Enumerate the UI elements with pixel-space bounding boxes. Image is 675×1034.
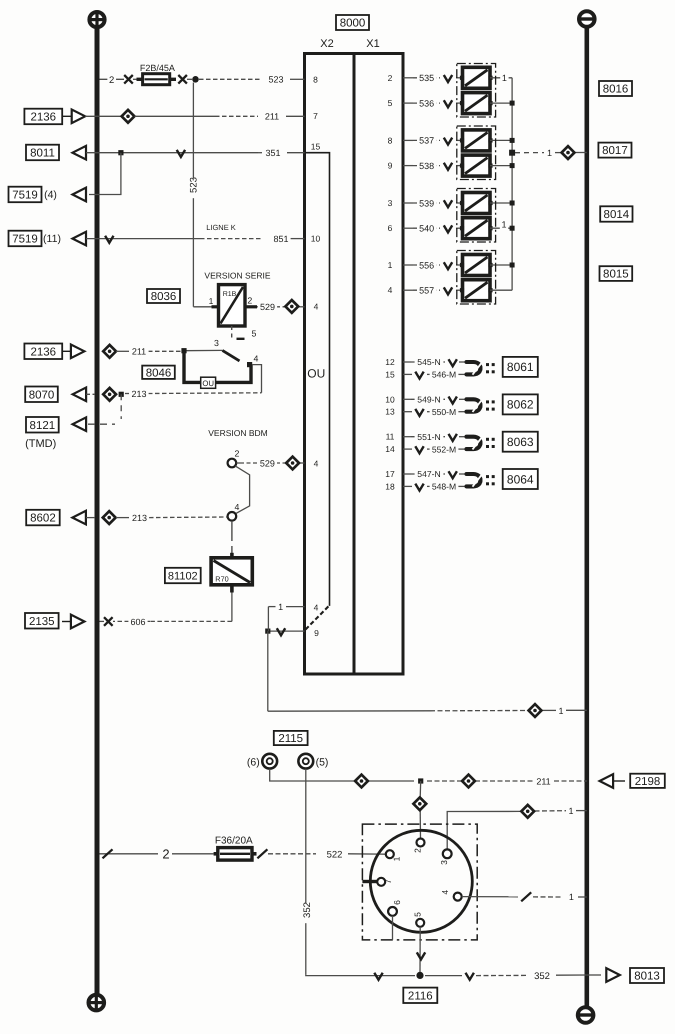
junction node on collector bbox=[510, 263, 515, 268]
wire label 1 (8017 row) bbox=[545, 147, 553, 158]
ground terminal symbol top-right bbox=[579, 11, 595, 27]
svg-text:549-N: 549-N bbox=[417, 395, 440, 405]
svg-text:551-N: 551-N bbox=[417, 432, 440, 442]
junction node on collector bbox=[510, 138, 515, 143]
warning lamp 557 bbox=[463, 280, 491, 301]
wire from 523 into relay pin 1 bbox=[193, 306, 212, 308]
connector 2116 body circle bbox=[370, 830, 472, 932]
connector half-shell 8063 top hook bbox=[467, 437, 481, 445]
wire 537 lamp to collector bbox=[490, 139, 512, 141]
label box 8011 bbox=[26, 145, 59, 161]
switch 8046 contact 4 node bbox=[247, 362, 252, 367]
splice X mark left of fuse F2B bbox=[124, 75, 133, 84]
junction node collector to ground branch bbox=[509, 150, 515, 156]
svg-text:522: 522 bbox=[327, 849, 343, 860]
battery terminal symbol top-left bbox=[89, 12, 104, 27]
wire 557 lamp to collector bbox=[490, 289, 512, 291]
splice diamond on wire 529 (bdm) bbox=[286, 457, 299, 470]
arrow V on wire 540 bbox=[444, 225, 452, 232]
warning lamp 556 bbox=[463, 255, 491, 276]
svg-text:F2B/45A: F2B/45A bbox=[140, 63, 175, 73]
svg-text:539: 539 bbox=[419, 198, 434, 208]
svg-text:4: 4 bbox=[388, 285, 393, 295]
2116 pin 3 bbox=[443, 849, 452, 858]
switch 8046 moving arm bbox=[222, 350, 239, 361]
wire 529 (bdm) to X2 pin 4 bbox=[236, 462, 240, 464]
svg-text:3: 3 bbox=[439, 860, 449, 865]
label box 8013 bbox=[630, 968, 664, 983]
svg-text:2136: 2136 bbox=[31, 346, 57, 358]
svg-text:11: 11 bbox=[386, 432, 395, 442]
wire 2 from + rail to fuse F2B bbox=[100, 78, 125, 80]
splice diamond (8017 row) bbox=[562, 146, 575, 159]
svg-text:545-N: 545-N bbox=[417, 357, 440, 367]
junction node below X2 pin 9 bbox=[265, 629, 270, 634]
wire 552-M from X1 bbox=[403, 448, 412, 450]
svg-text:1: 1 bbox=[278, 602, 283, 612]
wire 546-M from X1 bbox=[403, 373, 412, 375]
connector half-shell 8064 bottom hook bbox=[467, 479, 481, 487]
dashed TMD vertical link to wire 213 bbox=[120, 394, 122, 419]
arrow from 2135 into rail bbox=[62, 621, 71, 623]
wire from X2 pin 9 (bottom) bbox=[268, 630, 305, 632]
svg-text:352: 352 bbox=[302, 902, 313, 918]
junction node 2116 pin 5 to wire 352 bbox=[416, 972, 423, 979]
wire label 529 (bdm) bbox=[258, 458, 277, 469]
splice diamond on wire 529 (serie) bbox=[285, 300, 298, 313]
fuse F36/20A bbox=[214, 852, 218, 856]
svg-text:10: 10 bbox=[385, 394, 395, 404]
wire 557 from X1 pin 4 bbox=[403, 289, 413, 291]
svg-text:9: 9 bbox=[314, 628, 319, 638]
label box 2136 (top) bbox=[24, 109, 62, 125]
svg-text:10: 10 bbox=[311, 234, 321, 244]
svg-text:81102: 81102 bbox=[168, 570, 198, 582]
inner variant box inside X2 bbox=[306, 153, 330, 606]
wire 523 to X2 pin 8 bbox=[199, 78, 262, 80]
wire 540 lamp to collector bbox=[490, 227, 512, 229]
svg-text:1: 1 bbox=[569, 892, 574, 902]
svg-text:13: 13 bbox=[385, 407, 395, 417]
label box 2136 (second) bbox=[24, 344, 62, 360]
svg-text:547-N: 547-N bbox=[417, 469, 440, 479]
svg-text:351: 351 bbox=[265, 148, 280, 158]
wire 545-N from X1 bbox=[403, 361, 411, 363]
arrow V on wire 545-N bbox=[449, 359, 457, 366]
svg-text:8011: 8011 bbox=[30, 148, 55, 160]
arrow to 7519(11) bbox=[73, 232, 87, 246]
svg-text:851: 851 bbox=[273, 234, 288, 244]
wire 536 from X1 pin 5 bbox=[403, 102, 413, 104]
junction node wire 211 / branch to 2116 pin 2 bbox=[418, 778, 423, 783]
svg-text:4: 4 bbox=[254, 354, 259, 364]
wire label 538 bbox=[417, 160, 436, 171]
svg-text:8062: 8062 bbox=[507, 398, 534, 412]
svg-text:6: 6 bbox=[388, 223, 393, 233]
wire label 535 bbox=[417, 72, 436, 83]
arrow V on wire 535 bbox=[444, 75, 452, 82]
svg-text:OU: OU bbox=[202, 379, 214, 388]
relay R70 (81102) bbox=[211, 558, 252, 585]
wire 538 lamp to collector bbox=[490, 165, 512, 167]
ring terminal (6) bbox=[262, 754, 277, 769]
stub from arrow 8070 to rail bbox=[86, 393, 95, 395]
svg-text:2135: 2135 bbox=[29, 616, 55, 628]
splice diamond on branch to pin 2 bbox=[413, 797, 426, 810]
wire 538 from X1 pin 9 bbox=[403, 165, 413, 167]
svg-text:2: 2 bbox=[109, 75, 114, 86]
svg-text:538: 538 bbox=[419, 161, 434, 171]
label box 2115 bbox=[274, 731, 308, 745]
wire label 536 bbox=[417, 98, 436, 109]
svg-text:4: 4 bbox=[314, 603, 319, 613]
ring terminal (5) bbox=[298, 754, 313, 769]
wire 535 from X1 pin 2 bbox=[403, 77, 413, 79]
wire 211 from (6) to 2198 bbox=[270, 769, 296, 781]
switch BDM moving arm bbox=[235, 466, 249, 514]
svg-text:8017: 8017 bbox=[602, 145, 628, 157]
wire 211 to switch 8046 pivot bbox=[116, 350, 129, 352]
wire label 2 (bottom) bbox=[161, 846, 172, 861]
svg-text:1: 1 bbox=[392, 856, 402, 861]
wire 351 to X2 pin 15 bbox=[86, 152, 258, 154]
svg-text:VERSION BDM: VERSION BDM bbox=[208, 428, 268, 438]
wire label 551-N bbox=[415, 432, 444, 443]
relay R1B (8036) bbox=[219, 285, 246, 326]
svg-text:606: 606 bbox=[130, 617, 145, 627]
svg-text:529: 529 bbox=[260, 458, 275, 468]
wire label 556 bbox=[417, 260, 436, 271]
arrow V on wire 547-N bbox=[449, 471, 457, 478]
arrow to 7519(4) bbox=[73, 188, 87, 202]
label box 8062 bbox=[503, 394, 538, 414]
wire 549-N from X1 bbox=[403, 398, 411, 400]
svg-text:X2: X2 bbox=[320, 38, 333, 50]
svg-text:8070: 8070 bbox=[29, 389, 55, 401]
switch BDM contact 2 bbox=[228, 459, 237, 468]
fuse F2B/45A bbox=[137, 78, 143, 81]
wire from collector to ground rail (8017 row) bbox=[515, 152, 544, 154]
2116 pin 4 bbox=[454, 893, 462, 901]
wire from BDM contact 4 down to relay R70 bbox=[231, 521, 233, 541]
wire label 539 bbox=[417, 198, 436, 209]
warning lamp 537 bbox=[463, 130, 491, 151]
svg-text:(6): (6) bbox=[247, 756, 260, 768]
svg-text:213: 213 bbox=[131, 389, 146, 399]
branch wire down to 2116 pin 2 bbox=[419, 781, 422, 798]
svg-text:5: 5 bbox=[388, 98, 393, 108]
label box 8014 bbox=[600, 206, 632, 221]
switch BDM contact 4 bbox=[228, 512, 237, 521]
wire label 211 (second) bbox=[129, 346, 148, 357]
splice diamond on wire 1 bbox=[529, 704, 542, 717]
wire label 2 bbox=[107, 74, 116, 86]
svg-text:8602: 8602 bbox=[30, 513, 56, 525]
splice diamond on rail for wire 211 (second) bbox=[103, 345, 116, 358]
vertical wire down to row 1 bbox=[267, 631, 269, 711]
label 8000 bbox=[336, 15, 369, 30]
svg-text:523: 523 bbox=[188, 177, 199, 193]
svg-text:3: 3 bbox=[388, 198, 393, 208]
svg-text:2115: 2115 bbox=[278, 733, 303, 745]
warning lamp 539 bbox=[463, 193, 491, 214]
arrow V on wire 851 bbox=[105, 236, 113, 243]
svg-text:14: 14 bbox=[385, 444, 395, 454]
svg-text:7: 7 bbox=[313, 111, 318, 121]
svg-text:OU: OU bbox=[307, 367, 325, 381]
svg-text:1: 1 bbox=[558, 706, 563, 716]
svg-text:8016: 8016 bbox=[603, 84, 629, 96]
arrow V on wire 557 bbox=[444, 287, 452, 294]
arrow V on wire 551-N bbox=[449, 434, 457, 441]
svg-text:546-M: 546-M bbox=[432, 370, 456, 380]
svg-text:211: 211 bbox=[265, 112, 279, 122]
svg-text:R1B: R1B bbox=[223, 291, 237, 298]
wire label 552-M bbox=[430, 444, 459, 455]
wire label 522 bbox=[324, 848, 344, 860]
connector half-shell 8061 top hook bbox=[467, 362, 481, 370]
svg-text:213: 213 bbox=[132, 513, 147, 523]
ECU 8000 connector housing X2 bbox=[305, 54, 355, 675]
label box 8061 bbox=[503, 357, 538, 377]
arrow V on wire 550-M bbox=[415, 409, 423, 416]
svg-text:2198: 2198 bbox=[635, 776, 661, 788]
wire label 540 bbox=[417, 223, 436, 234]
svg-text:7519: 7519 bbox=[12, 234, 38, 246]
wire 352 bottom row to 8013 bbox=[306, 974, 368, 977]
svg-text:(TMD): (TMD) bbox=[25, 438, 56, 450]
wire label 529 (serie) bbox=[258, 301, 277, 312]
svg-text:17: 17 bbox=[385, 469, 395, 479]
arrow V on wire 351 bbox=[177, 150, 185, 157]
svg-text:4: 4 bbox=[314, 302, 319, 312]
label box 8602 bbox=[26, 510, 60, 526]
wire 352 from (5) down bbox=[305, 769, 307, 975]
wire label 213 bbox=[129, 388, 148, 399]
label box 8015 bbox=[600, 266, 633, 281]
svg-text:8: 8 bbox=[388, 135, 393, 145]
junction node to wire 523 bbox=[192, 76, 199, 83]
svg-text:6: 6 bbox=[392, 900, 402, 905]
2116 pin 6 bbox=[388, 907, 397, 916]
wire from 2116 pin 3 to ground rail bbox=[447, 811, 521, 849]
connector half-shell 8064 top hook bbox=[467, 474, 481, 482]
wire 536 lamp to collector bbox=[490, 102, 512, 104]
arrow V on pin 5 wire bbox=[417, 952, 425, 959]
arrow from 2136 (second) into rail bbox=[63, 350, 72, 352]
svg-text:1: 1 bbox=[209, 296, 214, 306]
warning lamp 536 bbox=[463, 93, 491, 114]
wire 529 (serie) to X2 pin 4 bbox=[257, 306, 260, 308]
vertical link pin4/pin9 wires bbox=[267, 607, 269, 632]
arrow V on wire 548-M bbox=[415, 484, 423, 491]
wire label 523 bbox=[266, 74, 285, 85]
arrow V on wire 352 (left) bbox=[374, 973, 382, 980]
wire 539 lamp to collector bbox=[490, 202, 512, 204]
label box 7519 (4) bbox=[9, 187, 42, 203]
OU alternative thick path bbox=[184, 351, 251, 383]
ground rail (right vertical bus) bbox=[584, 19, 589, 1015]
label box 2135 bbox=[25, 613, 59, 629]
svg-text:2: 2 bbox=[388, 73, 393, 83]
label box 8070 bbox=[25, 387, 58, 403]
wire 547-N from X1 bbox=[403, 473, 411, 475]
wire label 1 (pin4 bottom) bbox=[276, 601, 284, 612]
collector wire joining lamp outputs bbox=[511, 78, 513, 290]
ECU 8000 connector housing X1 bbox=[354, 54, 403, 675]
junction node on wire 351 bbox=[118, 150, 123, 155]
rotated label 523 bbox=[189, 178, 201, 198]
connector half-shell 8063 bottom hook bbox=[467, 442, 481, 450]
connector half-shell 8061 bottom hook bbox=[467, 367, 481, 375]
wire 540 from X1 pin 6 bbox=[403, 227, 413, 229]
wire label 1 (pin 3 row) bbox=[567, 805, 575, 816]
arrow from 2136 into rail bbox=[63, 115, 72, 117]
wire label 537 bbox=[417, 135, 436, 146]
splice diamond on wire 211 bbox=[122, 110, 135, 123]
wire 535 lamp to collector bbox=[490, 77, 512, 79]
wire 551-N from X1 bbox=[403, 436, 411, 438]
wire 606 from relay R70 to 2135 bbox=[231, 593, 233, 622]
svg-text:8063: 8063 bbox=[507, 435, 534, 449]
warning lamp 535 bbox=[463, 67, 491, 88]
switch 8046 contact 5 dash bbox=[237, 338, 245, 340]
junction node on collector bbox=[510, 163, 515, 168]
wire 2 from + rail to fuse F36 bbox=[100, 853, 159, 855]
splice diamond on wire 211 (left) bbox=[355, 775, 368, 788]
junction node on collector bbox=[510, 201, 515, 206]
ground terminal symbol bottom-right bbox=[578, 1007, 594, 1023]
slash mark on pin 4 wire bbox=[521, 892, 531, 901]
svg-text:X1: X1 bbox=[366, 38, 379, 50]
wire label 351 bbox=[263, 147, 282, 158]
wire label 550-M bbox=[430, 407, 459, 418]
svg-text:8015: 8015 bbox=[603, 269, 629, 281]
label box 81102 bbox=[165, 568, 201, 583]
dashed TMD wire bbox=[88, 423, 115, 425]
dash-dot box lamps 537/538 bbox=[457, 126, 496, 180]
dash-dot box lamps 535/536 bbox=[457, 64, 496, 118]
splice diamond on wire 211 (right) bbox=[462, 775, 475, 788]
wire label 1 (pin 4 row) bbox=[567, 891, 575, 902]
svg-text:523: 523 bbox=[268, 75, 283, 85]
svg-text:F36/20A: F36/20A bbox=[215, 836, 253, 847]
warning lamp 540 bbox=[463, 218, 491, 239]
svg-text:8: 8 bbox=[313, 75, 318, 85]
svg-text:5: 5 bbox=[252, 329, 257, 339]
svg-text:3: 3 bbox=[214, 338, 219, 348]
wire 213 to switch contact 4 bbox=[125, 393, 129, 395]
connector contact dots 8063 bbox=[486, 438, 489, 441]
slash mark near + rail bbox=[103, 849, 113, 858]
svg-text:15: 15 bbox=[311, 142, 321, 152]
junction node on collector bbox=[510, 226, 515, 231]
svg-text:1: 1 bbox=[388, 260, 393, 270]
relay R1B pin 1 stub bbox=[212, 305, 219, 308]
splice X mark right of fuse F2B bbox=[178, 75, 187, 84]
svg-text:7: 7 bbox=[383, 879, 393, 884]
2116 pin 5 bbox=[416, 919, 424, 927]
wire label 352 (bottom) bbox=[532, 970, 552, 982]
svg-text:4: 4 bbox=[440, 890, 450, 895]
wire label 213 (8602) bbox=[130, 512, 149, 523]
svg-text:8014: 8014 bbox=[604, 209, 630, 221]
wire label 545-N bbox=[415, 357, 444, 368]
relay R1B coil dashed link to switch 3 bbox=[231, 326, 233, 341]
junction node wire 211 / OU branch bbox=[181, 348, 186, 353]
wire label 1 (ground row) bbox=[557, 705, 565, 716]
wire label 1 (row 535) bbox=[500, 72, 508, 83]
svg-text:(5): (5) bbox=[316, 756, 329, 768]
wire 851 LIGNE K to X2 pin 10 bbox=[86, 238, 200, 240]
svg-text:R70: R70 bbox=[215, 575, 228, 584]
label box 8063 bbox=[503, 432, 538, 452]
wire 556 from X1 pin 1 bbox=[403, 264, 413, 266]
relay R70 bottom pin stub bbox=[230, 585, 234, 593]
svg-text:9: 9 bbox=[388, 161, 393, 171]
svg-text:1: 1 bbox=[547, 148, 552, 158]
svg-text:(11): (11) bbox=[43, 233, 61, 245]
svg-text:1: 1 bbox=[501, 219, 506, 229]
label box 8046 bbox=[142, 366, 175, 379]
connector contact dots 8064 bbox=[486, 475, 489, 478]
svg-text:2: 2 bbox=[247, 295, 252, 305]
svg-text:537: 537 bbox=[419, 136, 434, 146]
wire 1 to ground rail bbox=[268, 710, 430, 712]
connector 2116 dash-dot enclosure bbox=[362, 824, 477, 940]
connector contact dots 8061 bbox=[486, 363, 489, 366]
svg-text:8121: 8121 bbox=[30, 420, 56, 432]
branch wire down to 7519(4) bbox=[89, 153, 121, 195]
dash-dot box lamps 556/557 bbox=[457, 251, 496, 305]
label box 8016 bbox=[599, 81, 632, 96]
splice X mark on wire 606 bbox=[104, 617, 113, 626]
link from contact 4 down to wire 213 bbox=[252, 365, 262, 393]
label box 8121 bbox=[26, 417, 59, 433]
arrow V on wire 556 bbox=[444, 262, 452, 269]
connector contact dots 8062 bbox=[486, 400, 489, 403]
svg-text:2: 2 bbox=[413, 848, 423, 853]
relay R70 top pin stub bbox=[230, 553, 234, 559]
svg-text:536: 536 bbox=[419, 98, 434, 108]
wire label 1 (row 540) bbox=[500, 219, 508, 230]
label box 7519 (11) bbox=[9, 231, 42, 247]
wire label 606 bbox=[128, 616, 147, 627]
svg-text:211: 211 bbox=[536, 776, 550, 786]
svg-text:(4): (4) bbox=[44, 189, 57, 201]
relay R1B pin 2 stub bbox=[245, 305, 257, 308]
arrow to 2198 bbox=[600, 774, 614, 788]
slash mark right of fuse F36 bbox=[257, 849, 267, 858]
wire label 548-M bbox=[430, 481, 459, 492]
wire label 211 (bottom) bbox=[534, 776, 553, 787]
wire 211 to X2 pin 7 bbox=[135, 115, 216, 117]
svg-text:5: 5 bbox=[413, 912, 423, 917]
label box 2116 bbox=[403, 988, 437, 1003]
svg-text:548-M: 548-M bbox=[432, 482, 456, 492]
svg-text:4: 4 bbox=[235, 502, 240, 512]
svg-text:550-M: 550-M bbox=[432, 407, 456, 417]
arrow V on wire 549-N bbox=[449, 397, 457, 404]
label box 8064 bbox=[503, 469, 538, 489]
wire label 547-N bbox=[415, 469, 444, 480]
splice diamond on pin 3 wire bbox=[521, 805, 534, 818]
dashed strap between X2 pins 4 and 9 bbox=[306, 606, 329, 629]
arrow V on wire 539 bbox=[444, 200, 452, 207]
arrow to 8070 bbox=[73, 388, 87, 402]
small OU box bbox=[201, 377, 216, 388]
svg-text:1: 1 bbox=[568, 806, 573, 816]
